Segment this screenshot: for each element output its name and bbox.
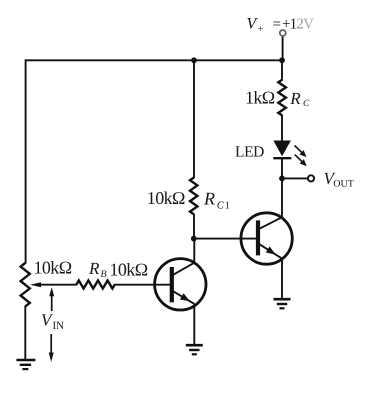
Vin down arrow <box>49 334 54 362</box>
wire V+ to RC <box>281 60 283 80</box>
svg-text:C: C <box>303 99 310 109</box>
wire pot to ground <box>24 306 26 359</box>
svg-text:=: = <box>273 17 281 33</box>
wire node C to Q2 base <box>194 238 256 240</box>
resistor RB <box>76 281 114 289</box>
svg-text:LED: LED <box>235 143 264 160</box>
node C (Q2 base / Q1 collector) <box>191 236 197 242</box>
wire Vout stub <box>282 177 308 179</box>
svg-text:1: 1 <box>225 200 230 211</box>
ground (pot) <box>16 360 35 369</box>
LED light arrow 2 <box>295 155 307 167</box>
wire V+ feed <box>282 36 284 60</box>
wire Vout node to Q2 collector <box>281 178 283 217</box>
wire LED to Vout node <box>281 158 283 178</box>
resistor RC1 <box>190 178 197 215</box>
svg-text:+: + <box>258 24 264 35</box>
svg-text:10kΩ: 10kΩ <box>34 258 72 278</box>
svg-text:+12V: +12V <box>282 17 314 33</box>
svg-text:B: B <box>101 269 107 280</box>
svg-text:R: R <box>289 89 301 108</box>
node B (top V+ branch) <box>279 57 285 63</box>
ground (Q1) <box>186 345 203 354</box>
svg-text:1kΩ: 1kΩ <box>245 88 275 108</box>
wire RB to Q1 base <box>114 284 170 286</box>
LED D1 <box>273 141 291 159</box>
Vin up arrow <box>49 287 54 311</box>
transistor Q1 <box>155 259 206 310</box>
resistor RC <box>278 80 286 116</box>
node Vout <box>279 176 285 182</box>
wire left rail <box>25 59 27 263</box>
svg-text:R: R <box>88 259 100 278</box>
terminal Vout <box>308 175 314 181</box>
svg-text:10kΩ: 10kΩ <box>147 188 185 208</box>
potentiometer R1 10k <box>21 263 30 307</box>
terminal V+ <box>280 30 286 36</box>
ground (Q2) <box>274 299 291 308</box>
wire Q1 emitter <box>193 304 195 344</box>
svg-text:R: R <box>203 188 215 208</box>
LED light arrow 1 <box>295 146 307 158</box>
pot wiper arrow <box>30 282 77 287</box>
svg-text:OUT: OUT <box>333 179 354 190</box>
svg-text:C: C <box>217 200 225 211</box>
wire Q2 emitter <box>281 259 283 299</box>
transistor Q2 <box>241 213 292 264</box>
svg-text:IN: IN <box>53 320 65 332</box>
wire RC1 to node C <box>193 214 195 239</box>
wire RC1 top feed <box>193 60 195 178</box>
wire RC to LED <box>281 115 283 141</box>
wire Q1 collector feed <box>193 239 195 263</box>
node A (top RC1 branch) <box>191 57 197 63</box>
wire top rail <box>26 59 282 61</box>
svg-text:10kΩ: 10kΩ <box>110 260 148 280</box>
